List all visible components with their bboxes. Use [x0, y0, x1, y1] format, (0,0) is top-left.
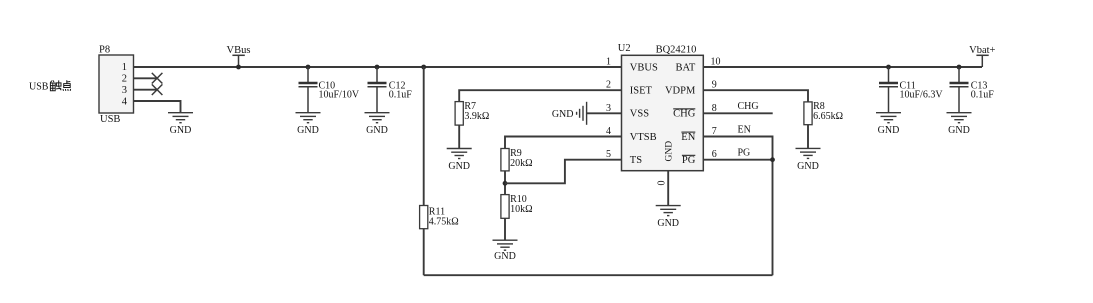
svg-text:4: 4 [606, 126, 611, 137]
svg-text:GND: GND [366, 125, 388, 136]
svg-text:VBUS: VBUS [630, 63, 658, 74]
wire PG pin6 [703, 159, 772, 161]
ground symbol at C13 [947, 113, 972, 137]
resistor R8 [804, 101, 843, 125]
label USB触点 (hand-drawn CJK + latin) [29, 80, 71, 92]
svg-text:PG: PG [738, 148, 751, 159]
svg-text:TS: TS [630, 155, 642, 166]
junction dot R9/R10/TS [503, 181, 508, 186]
wire R9 to junction [504, 171, 506, 195]
svg-text:4.75kΩ: 4.75kΩ [429, 216, 459, 227]
wire CHG pin8 [703, 112, 772, 114]
svg-text:GND: GND [494, 251, 516, 262]
wire VDPM pin9 to R8 [703, 90, 808, 102]
svg-text:VDPM: VDPM [665, 86, 696, 97]
svg-text:CHG: CHG [738, 101, 759, 112]
wire P8 pin4 to ground [134, 101, 181, 113]
IC U2 rotated GND pin name [664, 141, 674, 162]
sideways ground at VSS pin3 [552, 102, 622, 125]
connector P8 body [99, 55, 134, 113]
net label EN [738, 124, 751, 135]
resistor R9 [501, 148, 533, 171]
wire P8 pin1 to VBus rail [134, 66, 622, 68]
ground symbol at C10 [296, 113, 321, 137]
ground symbol at R8 [796, 148, 821, 171]
ground symbol at C11 [876, 113, 901, 137]
svg-text:GND: GND [948, 125, 970, 136]
wire R8 to ground [807, 125, 809, 149]
junction dot R11 branch [421, 65, 426, 70]
wire VTSB pin4 to R9 [505, 137, 622, 149]
svg-text:1: 1 [122, 62, 127, 73]
svg-text:Vbat+: Vbat+ [969, 45, 995, 56]
capacitor C13 [950, 67, 995, 113]
IC U2 left pin names [630, 63, 658, 167]
svg-text:GND: GND [170, 125, 192, 136]
svg-text:VSS: VSS [630, 109, 649, 120]
svg-text:BAT: BAT [675, 63, 695, 74]
junction dot C12 [375, 65, 380, 70]
connector P8 designator [99, 45, 110, 56]
wire VBus rail down to R11 [423, 67, 425, 206]
svg-text:CHG: CHG [673, 109, 696, 120]
junction dot EN/PG [770, 157, 775, 162]
svg-text:EN: EN [681, 132, 695, 143]
bottom rail wire [424, 274, 773, 276]
svg-text:10kΩ: 10kΩ [510, 204, 532, 215]
svg-text:ISET: ISET [630, 86, 653, 97]
svg-text:2: 2 [606, 80, 611, 91]
svg-text:10uF/10V: 10uF/10V [319, 89, 360, 100]
svg-text:10: 10 [711, 57, 721, 68]
IC U2 body [622, 55, 704, 170]
wire R10 to ground [504, 218, 506, 240]
no-connect X on pin3 [152, 84, 163, 95]
svg-text:PG: PG [682, 155, 696, 166]
wire R11 to bottom rail [423, 229, 425, 276]
svg-text:1: 1 [606, 57, 611, 68]
IC U2 pin 0 number (rotated) [657, 181, 668, 186]
IC U2 right pin numbers [711, 57, 721, 161]
resistor R10 [501, 194, 533, 218]
svg-text:GND: GND [448, 161, 470, 172]
svg-text:VTSB: VTSB [630, 132, 657, 143]
svg-text:6.65kΩ: 6.65kΩ [813, 111, 843, 122]
IC U2 right pin names [665, 63, 696, 167]
wire IC GND pin down [667, 171, 669, 206]
wire P8 pin2 stub [134, 77, 158, 79]
svg-text:GND: GND [297, 125, 319, 136]
junction dot C10 [306, 65, 311, 70]
capacitor C11 [879, 67, 943, 113]
net label PG [738, 148, 751, 159]
svg-text:GND: GND [657, 218, 679, 229]
svg-text:3.9kΩ: 3.9kΩ [464, 111, 489, 122]
svg-text:0.1uF: 0.1uF [971, 89, 995, 100]
svg-text:USB: USB [29, 82, 49, 93]
wire TS pin5 to junction [505, 160, 622, 184]
capacitor C12 [368, 67, 413, 113]
svg-text:8: 8 [712, 103, 717, 114]
svg-text:0.1uF: 0.1uF [389, 89, 413, 100]
ground symbol at R7 [447, 149, 472, 172]
power port VBus [227, 45, 251, 69]
svg-text:3: 3 [606, 103, 611, 114]
resistor R11 [420, 206, 459, 229]
svg-text:U2: U2 [618, 43, 631, 54]
wire R7 to ground [458, 125, 460, 148]
svg-text:GND: GND [664, 141, 674, 162]
svg-text:BQ24210: BQ24210 [656, 45, 697, 56]
svg-text:9: 9 [712, 80, 717, 91]
IC U2 left pin numbers [606, 57, 611, 161]
ground symbol at P8 [168, 113, 193, 137]
net label CHG [738, 101, 759, 112]
svg-text:P8: P8 [99, 45, 110, 56]
svg-text:GND: GND [878, 125, 900, 136]
connector P8 pin numbers [122, 62, 128, 107]
svg-text:10uF/6.3V: 10uF/6.3V [900, 89, 944, 100]
svg-text:5: 5 [606, 149, 611, 160]
capacitor C10 [299, 67, 360, 113]
no-connect X on pin2 [152, 73, 163, 84]
ground symbol at C12 [365, 113, 390, 137]
op IC U2 designator [618, 43, 631, 54]
svg-text:EN: EN [738, 124, 751, 135]
power port Vbat+ [969, 45, 995, 67]
svg-text:USB: USB [100, 114, 120, 125]
junction dot C11 [886, 65, 891, 70]
wire ISET pin2 to R7 [459, 90, 621, 101]
resistor R7 [455, 101, 489, 125]
ground symbol at R10 [493, 240, 518, 262]
svg-text:0: 0 [657, 181, 668, 186]
svg-text:3: 3 [122, 85, 127, 96]
svg-text:20kΩ: 20kΩ [510, 158, 532, 169]
svg-text:4: 4 [122, 96, 128, 107]
wire BAT pin10 rail [703, 66, 982, 68]
ground symbol at IC [656, 206, 681, 229]
IC U2 part number BQ24210 [656, 45, 697, 56]
svg-text:7: 7 [712, 126, 717, 137]
wire P8 pin3 stub [134, 89, 158, 91]
junction dot C13 [957, 65, 962, 70]
svg-text:VBus: VBus [227, 45, 251, 56]
svg-text:2: 2 [122, 74, 127, 85]
svg-text:GND: GND [552, 109, 574, 120]
connector P8 USB label [100, 114, 120, 125]
svg-text:6: 6 [712, 149, 717, 160]
svg-text:GND: GND [797, 161, 819, 172]
wire EN pin7 down to bottom rail [703, 137, 772, 276]
